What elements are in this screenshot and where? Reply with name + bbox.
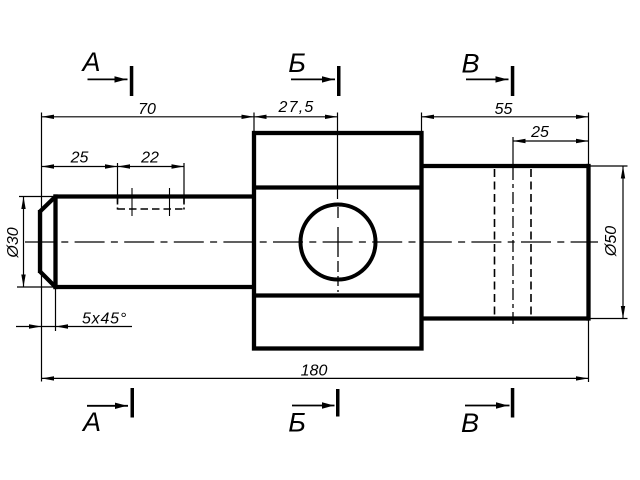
section B bottom arrow xyxy=(292,405,335,407)
flange block lower edge line xyxy=(254,293,422,297)
svg-text:180: 180 xyxy=(301,362,328,379)
hidden hole line right xyxy=(530,169,532,316)
extension line keyway right xyxy=(183,163,185,203)
extension line keyway left xyxy=(117,163,119,203)
svg-text:25: 25 xyxy=(70,150,89,167)
svg-text:25: 25 xyxy=(530,124,549,141)
extension line hole center xyxy=(337,113,339,200)
section A top bar xyxy=(130,66,134,96)
extension line left end xyxy=(41,113,43,382)
keyway center mark left xyxy=(131,188,133,216)
svg-text:Ø30: Ø30 xyxy=(5,227,22,258)
dimension line 25 right xyxy=(513,140,589,142)
section V top bar xyxy=(511,66,515,96)
keyway center mark right xyxy=(169,188,171,216)
svg-text:22: 22 xyxy=(140,150,159,167)
flange block upper edge line xyxy=(254,185,422,189)
dimension line dia50 xyxy=(622,166,624,319)
chamfer bottom slant xyxy=(40,272,56,288)
dimension line 22 xyxy=(118,166,185,168)
section V top arrow xyxy=(466,78,509,80)
extension line dia50 bottom xyxy=(589,318,628,320)
svg-text:Б: Б xyxy=(288,48,306,78)
section B top arrow xyxy=(291,78,335,80)
extension line right end upper xyxy=(588,113,590,167)
dimension line 25 left xyxy=(42,166,118,168)
keyway hidden bottom xyxy=(118,208,185,210)
svg-text:А: А xyxy=(80,47,100,77)
svg-text:55: 55 xyxy=(495,101,513,118)
section B bottom bar xyxy=(336,389,340,417)
dimension line dia30 xyxy=(23,197,25,288)
hidden hole centerline xyxy=(512,168,514,327)
section A bottom arrow xyxy=(87,405,128,407)
svg-text:5x45°: 5x45° xyxy=(82,310,127,327)
hidden hole line left xyxy=(494,169,496,316)
section B top bar xyxy=(337,66,341,96)
extension line block right xyxy=(421,113,423,134)
dimension line 55 xyxy=(422,116,589,118)
extension line dia50 top xyxy=(589,165,628,167)
shaft right cylinder top edge xyxy=(422,164,589,168)
dimension line 70 xyxy=(42,116,255,118)
svg-text:В: В xyxy=(461,48,479,78)
keyway hidden left end xyxy=(117,199,119,210)
chamfer junction line xyxy=(53,194,57,289)
flange hole circle xyxy=(301,205,376,280)
shaft right cylinder bottom edge xyxy=(422,316,589,320)
svg-text:70: 70 xyxy=(138,101,156,118)
extension line right end lower xyxy=(588,319,590,383)
section V bottom bar xyxy=(511,388,515,418)
flange block outline xyxy=(254,133,422,349)
centerline horizontal axis xyxy=(25,241,598,243)
dimension line 180 xyxy=(42,377,589,379)
section A top arrow xyxy=(88,78,128,80)
extension line chamfer xyxy=(55,289,57,331)
dimension line chamfer 5x45 xyxy=(16,326,132,328)
svg-text:27,5: 27,5 xyxy=(278,99,315,116)
centerline vertical hole axis xyxy=(337,202,339,292)
dimension line 27,5 xyxy=(254,116,338,118)
chamfer top slant xyxy=(40,197,56,212)
shaft left end edge xyxy=(38,210,42,273)
svg-text:В: В xyxy=(461,408,479,438)
keyway hidden right end xyxy=(183,199,185,210)
svg-text:А: А xyxy=(81,407,101,437)
shaft left cylinder bottom edge xyxy=(53,285,254,289)
svg-text:Ø50: Ø50 xyxy=(603,226,620,257)
svg-text:Б: Б xyxy=(288,408,306,438)
extension line dia30 top xyxy=(19,196,56,198)
extension line dia30 bottom xyxy=(17,286,56,288)
section V bottom arrow xyxy=(465,405,510,407)
extension line cross hole center xyxy=(512,137,514,168)
section A bottom bar xyxy=(131,388,135,418)
shaft right end edge xyxy=(586,164,590,321)
shaft left cylinder top edge xyxy=(53,194,254,198)
extension line block left xyxy=(253,113,255,134)
